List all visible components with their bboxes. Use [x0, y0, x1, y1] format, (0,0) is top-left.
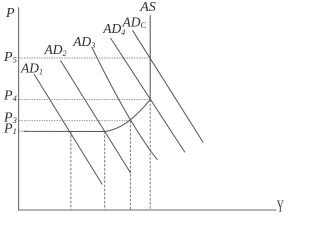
svg-text:P: P	[5, 6, 15, 21]
Y axis (horizontal)	[18, 209, 277, 211]
dashed price line P1	[19, 130, 26, 132]
AS curve: flat, rising, vertical	[24, 15, 151, 131]
AD1 curve	[34, 74, 102, 185]
svg-text:Y: Y	[277, 198, 284, 215]
AD2 curve	[61, 61, 131, 174]
AD4 curve	[111, 38, 185, 152]
svg-text:AS: AS	[139, 0, 156, 15]
svg-text:AD2: AD2	[44, 42, 67, 58]
svg-text:AD1: AD1	[20, 61, 43, 77]
dashed output line at AD1 junction	[70, 131, 72, 210]
dashed output line at AD2 junction	[104, 131, 106, 210]
ADc curve	[133, 30, 204, 142]
dashed price line P3	[19, 120, 130, 122]
svg-text:P4: P4	[3, 89, 18, 104]
dashed output line at AS kink	[149, 100, 151, 210]
dashed price line P5	[19, 57, 150, 59]
svg-text:P5: P5	[3, 50, 17, 65]
P axis (vertical)	[18, 7, 20, 210]
svg-text:ADC: ADC	[122, 14, 147, 30]
dashed output line at AD3 junction	[129, 121, 131, 210]
AD3 curve	[92, 48, 158, 161]
svg-text:AD3: AD3	[72, 34, 95, 50]
dashed price line P4	[19, 99, 150, 101]
